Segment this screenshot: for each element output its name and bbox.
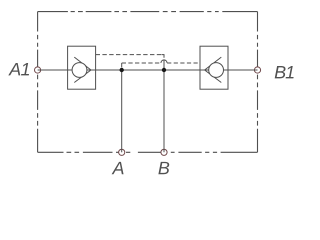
label B	[158, 162, 169, 174]
label A	[112, 162, 124, 174]
junction: node B-branch on main line	[162, 68, 166, 72]
label A1	[8, 63, 29, 75]
enclosure boundary (phantom-dashed subsystem box)	[38, 12, 258, 153]
wire: branch from A-junction down to port A	[121, 70, 123, 152]
pilot line X1 (dashed, from valve V1 to node B-junction)	[96, 55, 164, 70]
check valve V1 (pilot-operated, left)	[68, 46, 96, 89]
label B1	[275, 66, 294, 78]
wire: main flow line A1 to B1	[38, 69, 258, 71]
port B (boundary port circle)	[161, 149, 167, 155]
check valve V2 (pilot-operated, right)	[200, 46, 228, 89]
pilot line X2 (dashed, from node A-junction to valve V2, with crossover hop)	[122, 60, 200, 70]
port B1 (boundary port circle)	[254, 67, 260, 73]
wire: branch from B-junction down to port B	[163, 70, 165, 152]
junction: node A-branch on main line	[120, 68, 124, 72]
port A1 (boundary port circle)	[35, 67, 41, 73]
port A (boundary port circle)	[119, 149, 125, 155]
